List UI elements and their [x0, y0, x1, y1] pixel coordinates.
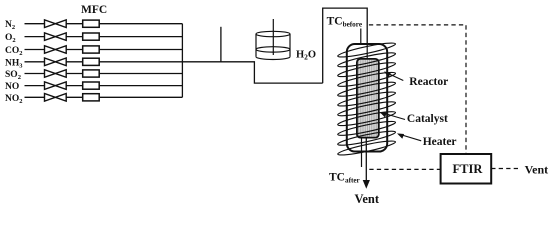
MFC M4 (NH3)	[83, 58, 100, 65]
valve V4 (NH3)	[45, 58, 67, 66]
reactor inlet pipe inside	[366, 44, 368, 60]
wire valve to MFC row 4	[66, 61, 83, 63]
manifold bus	[181, 24, 183, 98]
svg-text:O2: O2	[5, 33, 16, 44]
wire valve to MFC row 3	[66, 49, 83, 51]
svg-text:CO2: CO2	[5, 46, 23, 57]
bubbler water level	[256, 47, 290, 52]
wire manifold outlet	[182, 62, 322, 83]
MFC M6 (NO)	[83, 82, 100, 89]
wire valve to MFC row 7	[66, 96, 83, 98]
svg-text:Reactor: Reactor	[409, 76, 448, 88]
MFC M7 (NO2)	[83, 94, 100, 101]
pointer Reactor	[387, 73, 404, 81]
svg-text:NH3: NH3	[5, 58, 23, 69]
thermocouple probe before	[360, 29, 362, 61]
svg-text:Catalyst: Catalyst	[407, 113, 448, 125]
bubbler bottom	[256, 57, 290, 60]
wire valve to MFC row 6	[66, 85, 83, 87]
bubbler top ellipse	[256, 31, 290, 36]
FTIR box	[441, 154, 492, 184]
heater coil turn 2	[337, 50, 396, 69]
pointer Heater	[400, 134, 421, 140]
wire MFC to manifold row 5	[99, 73, 182, 75]
wire MFC to manifold row 1	[99, 23, 182, 25]
wire MFC to manifold row 7	[99, 96, 182, 98]
pointer Catalyst	[383, 113, 406, 120]
dashed line TC_after to FTIR	[369, 168, 440, 170]
heater coil turn 7	[337, 99, 396, 118]
valve V2 (O2)	[45, 33, 67, 41]
MFC M2 (O2)	[83, 33, 100, 40]
wire riser to reactor inlet	[323, 8, 368, 83]
heater coil turn 4	[337, 70, 396, 89]
MFC M3 (CO2)	[83, 46, 100, 53]
wire NO2 to valve	[25, 96, 45, 98]
heater coil turn 8	[337, 109, 396, 128]
wire MFC to manifold row 4	[99, 61, 182, 63]
wire N2 to valve	[25, 23, 45, 25]
vent arrowhead	[363, 180, 370, 189]
MFC M1 (N2)	[83, 20, 100, 27]
reactor tube	[347, 44, 387, 152]
svg-text:H2O: H2O	[296, 50, 316, 62]
heater coil turn 3	[337, 60, 396, 79]
heater coil turn 11	[337, 139, 396, 158]
valve V3 (CO2)	[45, 46, 67, 54]
wire SO2 to valve	[25, 73, 45, 75]
valve V7 (NO2)	[45, 94, 67, 102]
bubbler wall left	[255, 34, 257, 57]
svg-text:TCbefore: TCbefore	[327, 15, 362, 28]
dashed line FTIR to vent	[491, 168, 519, 170]
valve V1 (N2)	[45, 20, 67, 28]
svg-text:NO: NO	[5, 82, 19, 92]
svg-text:FTIR: FTIR	[453, 162, 484, 176]
catalyst bed	[357, 59, 379, 138]
svg-text:Heater: Heater	[423, 136, 457, 148]
MFC M5 (SO2)	[83, 70, 100, 77]
outlet pipe	[365, 138, 367, 181]
dashed line TC_before to FTIR	[369, 25, 466, 154]
bubbler wall right	[289, 34, 291, 57]
heater coil turn 6	[337, 90, 396, 109]
heater coil turn 1	[337, 41, 396, 60]
svg-text:N2: N2	[5, 20, 15, 31]
valve V5 (SO2)	[45, 70, 67, 78]
valve V6 (NO)	[45, 82, 67, 90]
wire NH3 to valve	[25, 61, 45, 63]
svg-text:Vent: Vent	[355, 192, 380, 206]
svg-text:NO2: NO2	[5, 94, 23, 105]
wire valve to MFC row 5	[66, 73, 83, 75]
svg-text:MFC: MFC	[81, 4, 107, 16]
svg-text:Vent: Vent	[525, 163, 549, 177]
bubbler dip tube	[272, 19, 274, 55]
wire CO2 to valve	[25, 49, 45, 51]
catalyst hatch	[358, 60, 360, 137]
thermocouple probe after	[361, 138, 363, 167]
wire valve to MFC row 2	[66, 36, 83, 38]
wire MFC to manifold row 3	[99, 49, 182, 51]
heater coil turn 9	[337, 119, 396, 138]
svg-text:TCafter: TCafter	[329, 172, 361, 185]
wire valve to MFC row 1	[66, 23, 83, 25]
wire O2 to valve	[25, 36, 45, 38]
wire NO to valve	[25, 85, 45, 87]
stub line	[220, 27, 222, 62]
wire MFC to manifold row 6	[99, 85, 182, 87]
heater coil turn 10	[337, 129, 396, 148]
heater coil turn 5	[337, 80, 396, 99]
wire MFC to manifold row 2	[99, 36, 182, 38]
catalyst border	[357, 59, 379, 138]
svg-text:SO2: SO2	[5, 70, 21, 81]
